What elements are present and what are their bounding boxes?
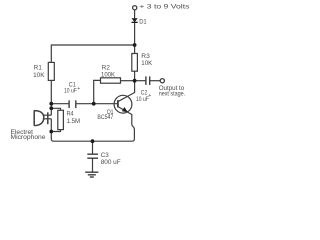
svg-text:C3: C3 [101,152,109,159]
svg-text:BC547: BC547 [97,114,113,121]
svg-text:10K: 10K [33,72,45,79]
svg-text:1.5M: 1.5M [67,118,81,125]
svg-text:+: + [77,86,80,92]
svg-text:10 uF: 10 uF [136,96,149,103]
svg-text:100K: 100K [101,72,116,79]
svg-text:+: + [148,93,151,99]
svg-text:10 uF: 10 uF [64,88,77,95]
svg-text:R1: R1 [34,65,42,72]
svg-text:+ 3 to 9 Volts: + 3 to 9 Volts [139,4,190,11]
svg-text:R4: R4 [67,111,74,118]
svg-text:10K: 10K [141,60,153,67]
svg-text:next stage.: next stage. [159,90,186,97]
svg-text:R2: R2 [102,65,110,72]
svg-text:800 uF: 800 uF [101,159,121,166]
svg-text:D1: D1 [139,18,147,25]
svg-text:Microphone: Microphone [11,134,46,141]
